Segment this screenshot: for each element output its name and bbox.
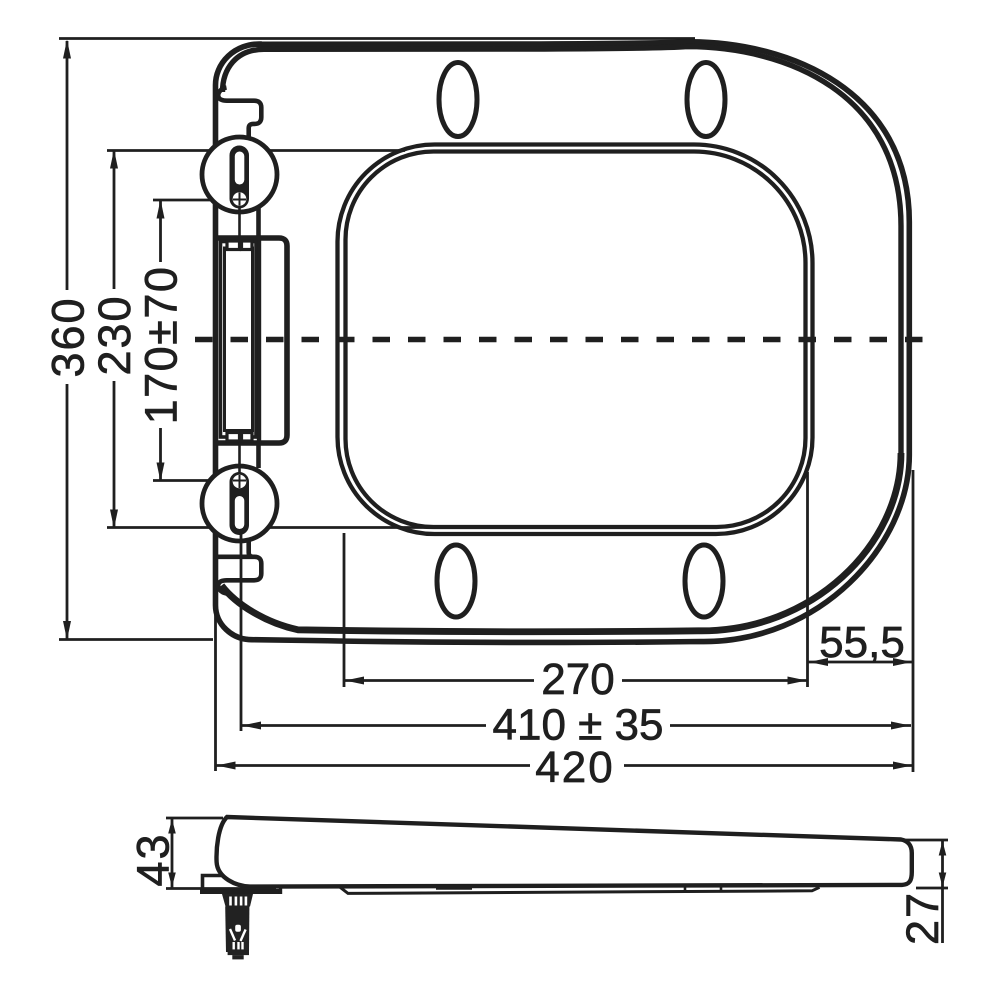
hinge slot hole bottom: [235, 496, 245, 529]
cap tab top-left: [227, 241, 240, 250]
bolt shaft: [225, 907, 249, 953]
side profile outline: [217, 817, 912, 887]
cap tab bottom-right: [242, 433, 253, 442]
hinge circle top: [202, 137, 277, 212]
svg-text:170±70: 170±70: [136, 266, 187, 425]
extension line 230 bottom / plateau lower line: [107, 526, 448, 529]
bumper top-right: [687, 63, 725, 137]
hinge slot hole top: [235, 152, 245, 185]
hinge pin line top: [238, 207, 241, 240]
cap tab top-right: [242, 241, 253, 250]
extension line 27 top: [905, 839, 948, 842]
extension line 55,5 right / 420 right: [912, 470, 915, 772]
bolt tip: [232, 955, 243, 959]
hinge circle bottom: [202, 466, 277, 541]
extension line 270 left: [343, 533, 346, 687]
dimension line 360: [66, 41, 69, 290]
hinge screw top: [233, 192, 247, 206]
hinge cutout hook top-left: [218, 88, 261, 142]
fixing bolt collar: [222, 894, 253, 907]
hinge keyhole bottom (dark stadium): [230, 472, 250, 535]
seat cover inner line upper: [223, 47, 902, 453]
bolt step: [228, 952, 249, 955]
extension line 420 left: [214, 608, 217, 771]
plateau outer outline: [338, 145, 813, 535]
hinge pin line bottom: [238, 443, 241, 473]
recess tick 1: [684, 887, 687, 893]
bumper bottom-right: [685, 545, 723, 617]
extension line 170±70 top: [153, 199, 248, 202]
svg-text:55,5: 55,5: [819, 618, 905, 667]
hinge bar body: [216, 238, 287, 443]
bracket right tick: [279, 885, 282, 894]
svg-text:270: 270: [541, 655, 614, 704]
bumper top-left: [439, 63, 477, 137]
dimension line 170±70: [159, 201, 162, 262]
seat cover inner line lower (thick): [222, 453, 902, 632]
bumper pad under seat: [436, 884, 472, 890]
bolt shaft details: [235, 925, 241, 932]
dimension line 43: [171, 818, 174, 888]
bumper bottom-left: [437, 545, 475, 617]
hinge keyhole top (dark stadium): [230, 146, 250, 209]
extension line 170±70 bottom: [153, 479, 248, 482]
seat cover outer outline (top view): [216, 42, 910, 643]
extension line 360 top: [59, 37, 695, 40]
dimension line 27: [941, 840, 944, 943]
extension line 230 top: [107, 149, 405, 152]
hinge bar cap outer: [221, 242, 257, 438]
dimension line 270: [344, 679, 534, 682]
dimension line 420: [216, 764, 531, 767]
svg-text:43: 43: [128, 832, 179, 886]
extension line 270 right: [806, 472, 809, 687]
collar ribs: [231, 897, 246, 906]
svg-text:27: 27: [897, 891, 948, 945]
hinge edge segment below bar: [256, 443, 261, 468]
dimension line 230: [113, 151, 116, 290]
hinge screw bottom: [233, 475, 247, 489]
dimension line 55,5: [808, 661, 913, 664]
extension line 27 bottom: [916, 887, 948, 890]
bottom recess line: [340, 887, 820, 893]
hinge edge segment above bar: [256, 208, 261, 238]
dimension line 410±35: [241, 724, 486, 727]
dashed centerline: [195, 337, 926, 343]
svg-text:420: 420: [535, 743, 614, 792]
bracket base plate: [200, 889, 282, 894]
hinge bracket (side view): [203, 876, 225, 891]
svg-text:230: 230: [89, 294, 140, 375]
extension line 43 top: [166, 817, 223, 820]
cap tab bottom-left: [227, 433, 240, 442]
extension line 410 left: [240, 534, 243, 731]
hinge cutout hook bottom-left: [218, 540, 261, 594]
svg-text:360: 360: [43, 296, 94, 377]
extension line 360 bottom: [59, 638, 213, 641]
hinge bar right face line: [257, 238, 261, 443]
plateau inner outline: [346, 152, 806, 528]
extension line 43 bottom: [166, 887, 276, 890]
hinge bar cap inner: [225, 248, 253, 431]
recess tick 2: [720, 887, 723, 893]
